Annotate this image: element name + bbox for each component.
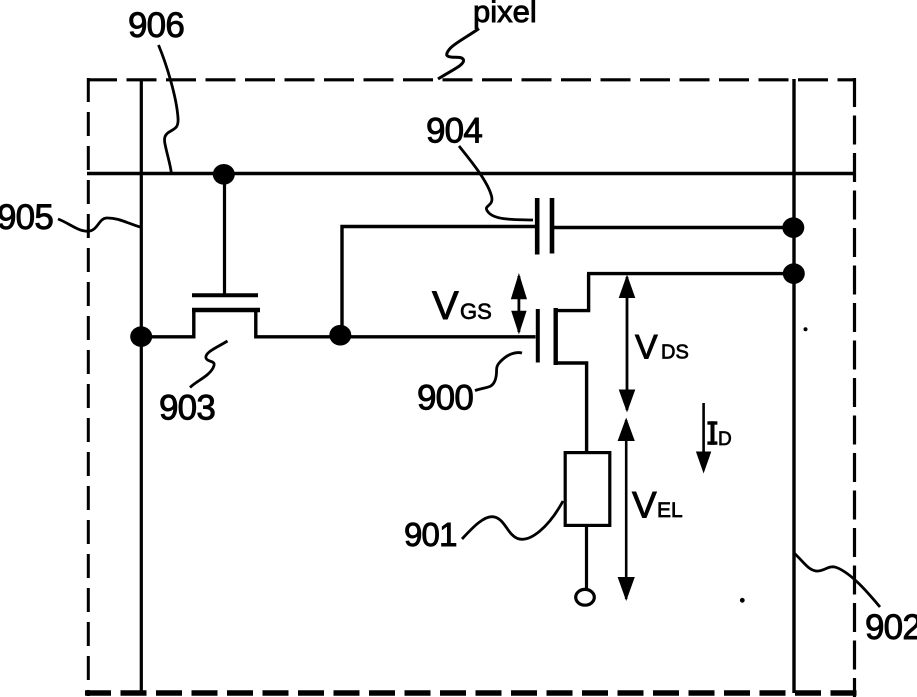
svg-text:900: 900 <box>417 379 473 418</box>
Vel measurement double arrow <box>618 418 635 602</box>
Vds measurement double arrow <box>619 275 636 413</box>
label 906 <box>128 6 184 45</box>
transistor Q900 gate bar <box>536 309 540 363</box>
EL element 901 box <box>565 453 610 526</box>
wire : power supply line 902 vertical <box>792 79 795 693</box>
transistor Q903 gate wire <box>223 174 226 294</box>
svg-text:906: 906 <box>128 6 184 45</box>
transistor Q903 source step <box>141 310 194 337</box>
label Id <box>707 421 731 450</box>
label 903 <box>159 389 215 428</box>
svg-text:901: 901 <box>404 516 457 553</box>
leader squiggle : 906 label <box>159 45 179 172</box>
wire : Q900 drain to power line <box>587 272 794 275</box>
junction dot on data line at Q903 source <box>130 326 152 347</box>
wire : capacitor C904 to power line <box>554 226 793 229</box>
leader squiggle : 904 label <box>459 146 533 220</box>
svg-text:V: V <box>635 329 658 367</box>
svg-text:DS: DS <box>661 342 689 364</box>
svg-text:EL: EL <box>657 499 683 522</box>
wire : data line 905 vertical <box>140 79 143 693</box>
svg-text:pixel: pixel <box>473 0 537 29</box>
svg-text:V: V <box>432 284 459 328</box>
leader squiggle : 900 label <box>475 353 522 391</box>
pixel boundary dashed box : bottom edge <box>85 690 857 695</box>
pixel boundary dashed box : right edge <box>853 78 856 697</box>
svg-text:902: 902 <box>865 608 917 647</box>
label 900 <box>417 379 473 418</box>
junction dot drain to 902 <box>783 263 805 284</box>
junction dot capacitor to 902 <box>782 217 804 238</box>
label Vgs <box>432 284 492 328</box>
scan speck near power line <box>804 327 808 331</box>
label pixel <box>473 0 537 29</box>
pixel boundary dashed box : top edge <box>87 78 855 81</box>
pixel boundary dashed box : left edge <box>87 78 90 696</box>
Id current arrow <box>696 403 711 474</box>
junction dot on scan line at Q903 gate <box>213 164 235 185</box>
wire : scan line 906 horizontal <box>87 172 853 176</box>
leader squiggle : 905 label <box>58 218 140 231</box>
svg-text:904: 904 <box>426 112 482 151</box>
wire : EL element to anode terminal <box>585 527 588 589</box>
transistor Q903 drain step <box>256 310 341 337</box>
label Vds <box>635 329 689 367</box>
svg-text:905: 905 <box>0 198 53 237</box>
transistor Q900 source step <box>556 363 587 452</box>
leader squiggle : 901 label <box>462 501 563 539</box>
transistor Q903 channel bar <box>192 308 260 312</box>
transistor Q900 channel bar <box>554 308 558 365</box>
leader squiggle : 902 label <box>794 553 880 607</box>
svg-text:V: V <box>632 485 657 526</box>
svg-text:903: 903 <box>159 389 215 428</box>
label 902 <box>865 608 917 647</box>
capacitor C904 right plate <box>550 198 555 254</box>
anode terminal circle <box>576 589 595 605</box>
svg-text:D: D <box>718 429 732 450</box>
leader squiggle : 903 label <box>190 341 228 388</box>
leader squiggle : pixel label <box>438 29 479 80</box>
wire : node A to Q900 gate <box>341 335 536 338</box>
label 904 <box>426 112 482 151</box>
transistor Q903 gate bar <box>192 293 258 297</box>
svg-text:GS: GS <box>460 299 492 324</box>
transistor Q900 drain step <box>556 274 589 311</box>
junction dot gate node A <box>329 325 351 346</box>
capacitor C904 left plate <box>535 198 540 255</box>
wire : node A to capacitor (vertical riser) <box>342 227 535 336</box>
label 905 <box>0 198 53 237</box>
scan speck below 902 leader <box>740 598 745 603</box>
label 901 <box>404 516 457 553</box>
Vgs measurement double arrow <box>511 273 527 335</box>
label Vel <box>632 485 683 526</box>
